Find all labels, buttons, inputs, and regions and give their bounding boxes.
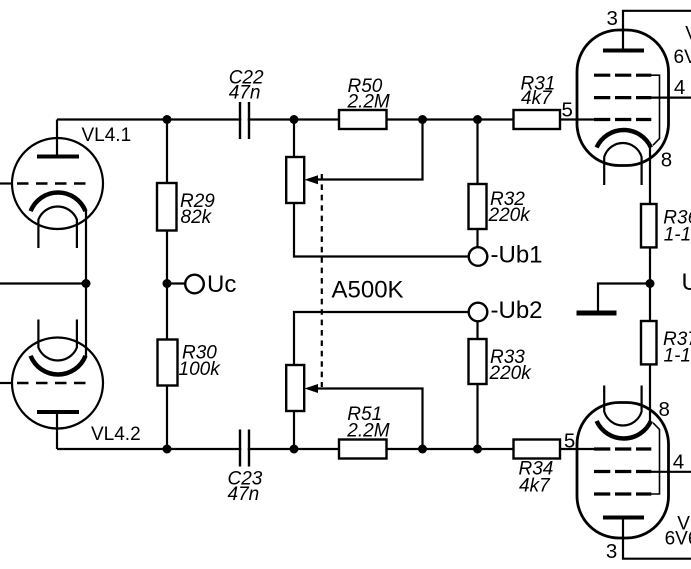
resistor R29 bbox=[157, 183, 177, 231]
potentiometer top gang bbox=[286, 157, 304, 203]
node top-pot bbox=[290, 115, 299, 124]
resistor R30 bbox=[158, 340, 178, 386]
wire top pot feed bbox=[293, 120, 295, 158]
wire R33 column bbox=[476, 321, 478, 450]
svg-text:220k: 220k bbox=[489, 363, 533, 384]
svg-text:Uc: Uc bbox=[207, 271, 236, 298]
svg-text:3: 3 bbox=[606, 540, 617, 563]
wire bottom tube plate to bottom rail bbox=[623, 518, 691, 559]
wire top tube pin4 screen bbox=[651, 96, 691, 98]
svg-text:4k7: 4k7 bbox=[521, 88, 553, 109]
potentiometer top wiper arrow bbox=[305, 175, 319, 184]
tube VL4.1 grid dashes bbox=[17, 182, 91, 184]
svg-text:8: 8 bbox=[659, 398, 670, 421]
svg-text:VL4.1: VL4.1 bbox=[82, 125, 132, 146]
tube VL4.1 cathode arc bbox=[31, 193, 86, 212]
svg-text:-Ub1: -Ub1 bbox=[491, 242, 543, 269]
tube VL4.2 envelope bbox=[12, 338, 103, 429]
svg-text:VL4.2: VL4.2 bbox=[91, 424, 141, 445]
svg-text:47n: 47n bbox=[229, 83, 261, 104]
node bottom-wiper bbox=[418, 445, 427, 454]
wire bottom pot bottom lead bbox=[293, 411, 295, 449]
resistor R36 bbox=[641, 204, 657, 247]
wire right cathode column R36 R37 bbox=[649, 146, 651, 422]
wire VL4.2 grid lead left bbox=[0, 382, 13, 384]
wire VL4.1 plate lead bbox=[56, 120, 58, 157]
wire top tube plate to top rail bbox=[623, 11, 691, 51]
wire bottom pot top to -Ub2 bbox=[294, 312, 469, 365]
tube V6 grid rows bbox=[594, 449, 651, 494]
resistor R31 bbox=[514, 110, 561, 129]
resistor R33 bbox=[469, 339, 487, 384]
node ground tap bbox=[646, 279, 655, 288]
terminal Uc bbox=[185, 275, 204, 294]
wire cathode link VL4.1 to VL4.2 bbox=[85, 211, 87, 357]
terminal -Ub2 bbox=[469, 303, 488, 322]
wire ground tap bbox=[598, 284, 650, 312]
svg-text:2.2M: 2.2M bbox=[346, 421, 389, 442]
node bottom-R30 bbox=[163, 445, 172, 454]
tube VL4.1 heater bbox=[38, 206, 77, 248]
capacitor C23 plates bbox=[240, 430, 249, 467]
tube VL4.2 cathode arc bbox=[31, 356, 86, 375]
svg-text:2.2M: 2.2M bbox=[347, 92, 390, 113]
svg-text:4: 4 bbox=[674, 76, 685, 99]
tube V5 heater bbox=[604, 143, 641, 185]
svg-text:1-1k: 1-1k bbox=[664, 225, 691, 246]
tube V5 top envelope bbox=[577, 30, 669, 166]
potentiometer bottom wiper arrow bbox=[305, 384, 319, 393]
svg-text:82k: 82k bbox=[181, 207, 213, 228]
potentiometer bottom gang bbox=[286, 365, 304, 411]
tube V6 bottom envelope bbox=[577, 403, 669, 539]
wire bottom main signal line bbox=[57, 448, 594, 450]
svg-text:47n: 47n bbox=[228, 484, 260, 505]
tube V5 anode bar bbox=[603, 49, 644, 53]
svg-text:5: 5 bbox=[562, 99, 573, 122]
wire R29 R30 column bbox=[166, 120, 168, 450]
resistor R32 bbox=[469, 184, 487, 229]
node top-wiper bbox=[418, 115, 427, 124]
tube VL4.2 grid dashes bbox=[17, 382, 91, 384]
node top-R32 bbox=[473, 115, 482, 124]
capacitor C22 plates bbox=[240, 102, 249, 139]
svg-text:6V6: 6V6 bbox=[665, 528, 691, 549]
node Uc bbox=[163, 279, 172, 288]
svg-text:6V: 6V bbox=[674, 47, 691, 68]
tube V5 cathode arc bbox=[597, 130, 651, 148]
resistor R37 bbox=[641, 321, 657, 364]
svg-text:A500K: A500K bbox=[332, 277, 404, 304]
wire top pot bottom to -Ub1 bbox=[294, 203, 469, 257]
capacitor C23 gap bbox=[241, 440, 247, 459]
svg-text:-Ub2: -Ub2 bbox=[491, 297, 543, 324]
ground bbox=[577, 311, 617, 316]
svg-text:5: 5 bbox=[564, 430, 575, 453]
capacitor C22 gap bbox=[241, 110, 247, 129]
svg-text:3: 3 bbox=[607, 7, 618, 30]
wire top wiper feed bbox=[308, 120, 423, 180]
wire cathode bus left bbox=[0, 282, 86, 284]
svg-text:U: U bbox=[682, 269, 691, 296]
svg-text:4k7: 4k7 bbox=[519, 476, 551, 497]
resistor R34 bbox=[514, 440, 561, 459]
potentiometer gang dashed link bbox=[321, 174, 323, 387]
tube V5 suppressor link bbox=[651, 75, 660, 145]
tube VL4.2 heater bbox=[38, 320, 77, 361]
tube VL4.1 envelope bbox=[12, 138, 103, 229]
resistor R50 bbox=[339, 110, 387, 129]
svg-text:V: V bbox=[685, 24, 691, 45]
wire bottom tube pin4 screen bbox=[651, 471, 691, 473]
node bottom-pot bbox=[290, 445, 299, 454]
terminal -Ub1 bbox=[469, 247, 488, 266]
resistor R51 bbox=[339, 440, 387, 459]
svg-text:1-1k: 1-1k bbox=[664, 346, 691, 367]
node bottom-R33 bbox=[473, 445, 482, 454]
svg-text:100k: 100k bbox=[179, 359, 222, 380]
tube V6 suppressor link bbox=[651, 423, 660, 494]
tube V6 cathode arc bbox=[597, 421, 651, 439]
wire VL4.1 grid lead left bbox=[0, 182, 13, 184]
tube V6 heater bbox=[604, 386, 641, 426]
wire VL4.2 plate lead bbox=[56, 412, 58, 449]
svg-text:220k: 220k bbox=[488, 205, 532, 226]
wire R32 column bbox=[476, 120, 478, 248]
tube V6 anode bar bbox=[603, 516, 644, 520]
tube VL4.1 anode bar bbox=[37, 155, 79, 159]
wire bottom wiper feed bbox=[308, 389, 423, 450]
svg-text:8: 8 bbox=[661, 148, 672, 171]
wire top main signal line bbox=[57, 118, 594, 120]
svg-text:4: 4 bbox=[673, 451, 684, 474]
tube V5 grid rows bbox=[594, 75, 651, 119]
node top-R29 bbox=[163, 115, 172, 124]
wire Uc tap bbox=[167, 282, 186, 284]
node cathode bus bbox=[82, 279, 91, 288]
tube VL4.2 anode bar bbox=[37, 410, 79, 414]
